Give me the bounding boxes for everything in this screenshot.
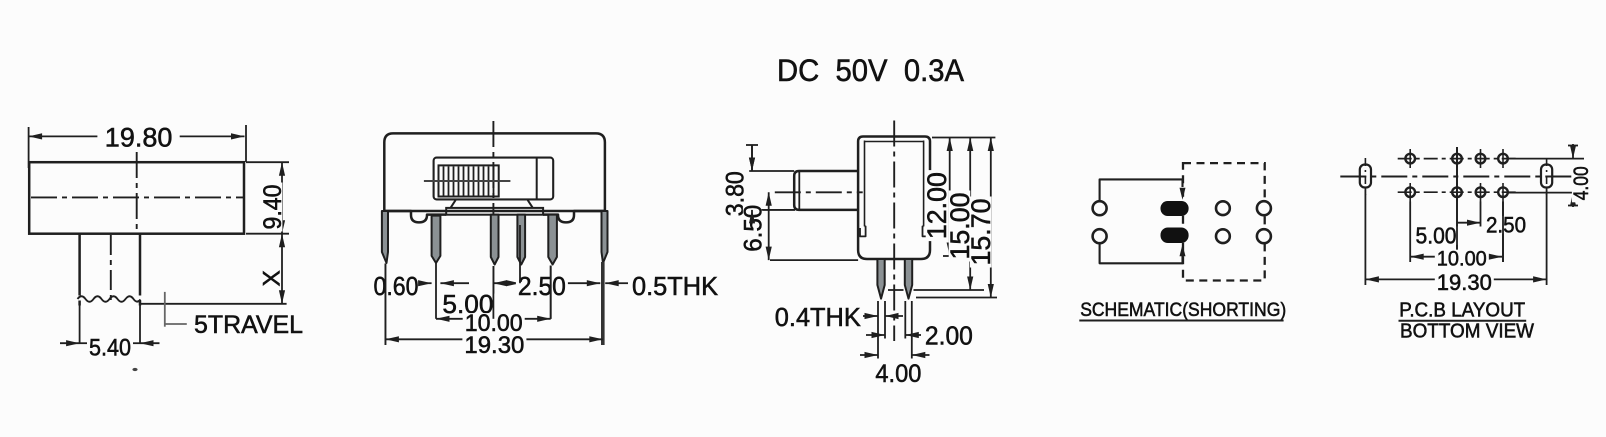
svg-text:2.50: 2.50	[1486, 212, 1526, 237]
svg-text:4.00: 4.00	[1569, 166, 1593, 200]
svg-text:0.4THK: 0.4THK	[775, 302, 862, 332]
svg-text:5.00: 5.00	[1416, 223, 1457, 249]
svg-text:9.40: 9.40	[259, 185, 287, 230]
svg-text:19.30: 19.30	[1437, 270, 1492, 295]
svg-text:0.5THK: 0.5THK	[632, 271, 719, 301]
svg-text:6.50: 6.50	[740, 205, 768, 252]
svg-text:19.30: 19.30	[464, 332, 524, 359]
svg-text:10.00: 10.00	[1437, 247, 1487, 271]
svg-text:4.00: 4.00	[875, 360, 921, 388]
svg-text:15.70: 15.70	[966, 199, 996, 266]
svg-text:X: X	[259, 270, 286, 286]
svg-text:DC 50V 0.3A: DC 50V 0.3A	[777, 52, 964, 88]
svg-text:P.C.B LAYOUT: P.C.B LAYOUT	[1399, 300, 1525, 322]
svg-text:19.80: 19.80	[105, 123, 173, 153]
svg-text:BOTTOM VIEW: BOTTOM VIEW	[1400, 321, 1534, 343]
svg-text:2.00: 2.00	[925, 322, 973, 350]
svg-text:0.60: 0.60	[374, 271, 419, 301]
svg-text:SCHEMATIC(SHORTING): SCHEMATIC(SHORTING)	[1080, 299, 1286, 321]
svg-text:5.40: 5.40	[89, 334, 131, 361]
svg-text:5TRAVEL: 5TRAVEL	[194, 311, 303, 339]
svg-text:2.50: 2.50	[518, 271, 566, 301]
